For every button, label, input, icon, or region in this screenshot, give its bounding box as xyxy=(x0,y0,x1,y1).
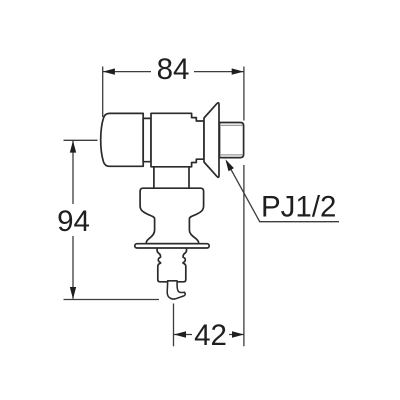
svg-text:84: 84 xyxy=(157,53,190,86)
svg-text:94: 94 xyxy=(57,205,90,238)
svg-text:42: 42 xyxy=(194,319,227,352)
svg-text:PJ1/2: PJ1/2 xyxy=(261,191,336,224)
